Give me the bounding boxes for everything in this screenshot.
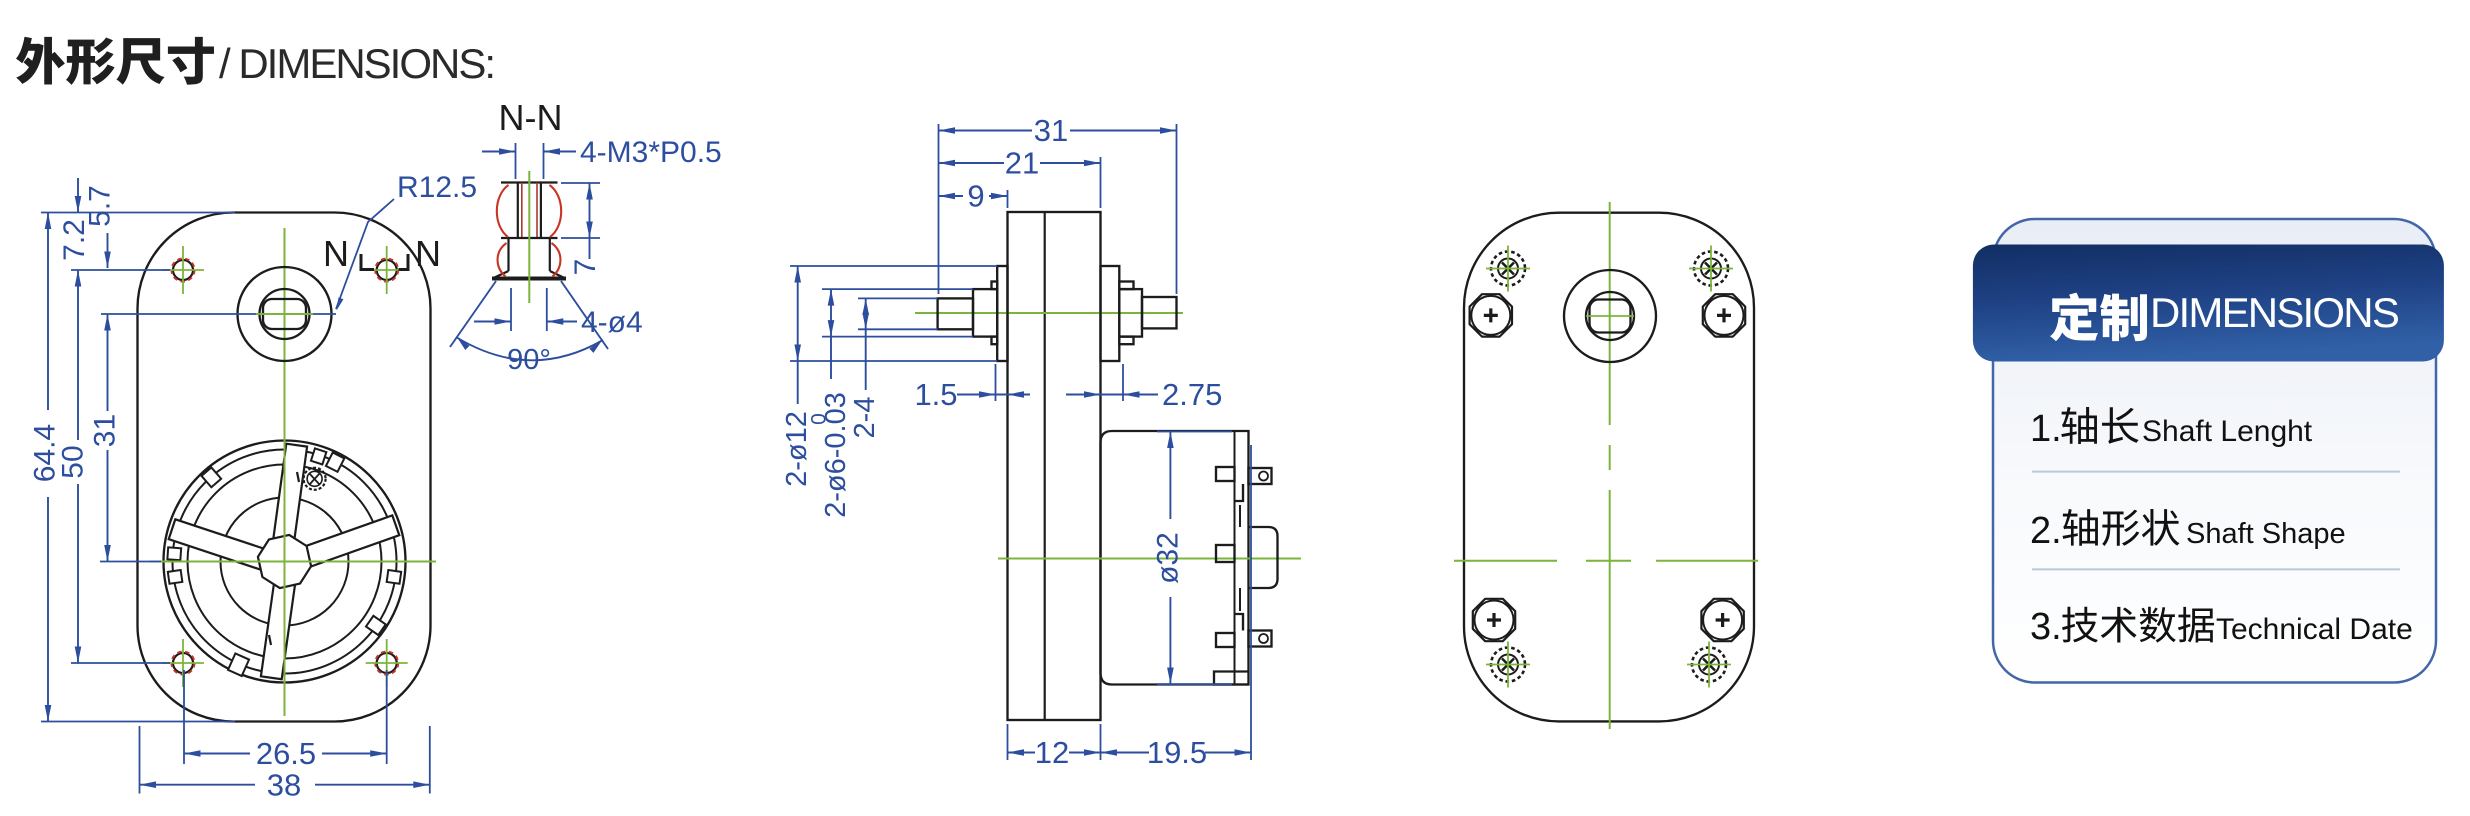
svg-text:Shaft Lenght: Shaft Lenght [2142,415,2313,448]
dim 19.5 [1101,752,1150,754]
side left shaft mid [973,289,997,337]
NN lower body walls [507,238,509,271]
front gear wheel [164,441,406,683]
front screw hole (386.7,663) [377,653,397,673]
side terminal upper blade [1249,468,1272,484]
side motor outline [1101,431,1249,685]
rear nut bottom-left [1473,599,1515,641]
NN dim 4-o4 [474,321,511,323]
front screw hole (386.7,270) [377,260,397,280]
gear center green cross [284,430,286,700]
dim 64.4 ext lines [41,212,235,214]
NN thread minor red [521,183,523,239]
svg-text:12: 12 [1035,735,1069,770]
NN cone lines [450,281,496,347]
NN dim 7 ext [561,182,600,184]
side shaft centerline [915,312,1183,314]
dim 64.4 [47,213,49,411]
dim 9 [939,195,964,197]
title CJK 外形尺寸 [16,37,214,85]
side left shaft end [938,298,973,329]
dim 50 ext lines [71,269,170,271]
svg-text:N: N [415,233,441,274]
side right bearing [1101,266,1120,361]
side gearbox body [1008,212,1101,720]
svg-text:2-4: 2-4 [849,397,881,439]
rear nut top-right [1703,294,1745,336]
front screw hole (183,270) [173,260,193,280]
dim 2-4 ext [858,297,938,299]
svg-text:9: 9 [967,179,984,214]
side motor can line [1234,431,1236,685]
svg-text:26.5: 26.5 [256,736,316,771]
dim 5.7 [107,233,109,268]
front boss green h [256,313,313,315]
svg-text:Technical Date: Technical Date [2216,613,2413,646]
svg-text:7: 7 [569,259,602,276]
dim 26.5 [184,753,250,755]
svg-text:3.: 3. [2030,606,2062,648]
svg-text:31: 31 [89,414,122,447]
dim 2-o6 ext [822,288,973,290]
side motor centerline [998,558,1301,560]
svg-text:19.5: 19.5 [1147,735,1207,770]
svg-text:/ DIMENSIONS:: / DIMENSIONS: [219,40,494,87]
svg-text:4-M3*P0.5: 4-M3*P0.5 [580,136,722,169]
NN dim 7 [589,183,591,259]
front screw hole (183,663) [173,653,193,673]
rear boss outer [1564,270,1656,362]
dim 1.5 ext [995,364,997,401]
dim 26.5 ext lines [183,670,185,764]
card separator 1 [2032,471,2400,473]
NN dim 4-o4 ext [510,288,512,331]
card header CJK 定制 [2050,293,2147,342]
dim 7.2 [77,178,79,213]
dim 38 ext lines [139,726,141,794]
svg-text:1.5: 1.5 [914,377,957,412]
rear boss green h [1586,315,1634,317]
NN 90 arc [456,337,603,360]
side bump tab [1216,545,1235,562]
front centerline vertical [284,228,286,716]
svg-text:0: 0 [808,413,831,425]
dim o32 ext [1157,431,1232,433]
svg-text:2-ø6-0.03: 2-ø6-0.03 [820,392,852,518]
svg-text:90°: 90° [507,344,551,376]
rear boss D-hole [1590,300,1631,333]
side terminal upper tab [1216,467,1235,481]
svg-text:R12.5: R12.5 [397,171,477,204]
dim 2-4 [865,298,867,390]
dim 21 ext [1100,157,1102,208]
dim 2.75 [1066,394,1101,396]
dim 21 [939,162,1005,164]
side terminal upper step [1235,484,1244,501]
NN centerline green [528,171,530,303]
side terminal lower step [1235,614,1244,631]
leader R12.5 [336,199,394,309]
svg-text:31: 31 [1034,113,1068,148]
NN step line [501,237,558,239]
svg-text:N-N: N-N [499,97,563,138]
dim 2-o12 [797,266,799,404]
card header band [1973,245,2444,362]
NN part top face [501,181,558,183]
svg-text:2.75: 2.75 [1162,377,1222,412]
side gearbox parting line [1044,212,1046,720]
front shaft boss outer [238,267,332,361]
svg-text:4-ø4: 4-ø4 [581,306,643,339]
NN dim 4-M3*P0.5 ext [515,143,517,179]
dim 2.75 ext [1122,364,1124,401]
front view body [138,213,431,722]
rear screw top-left [1491,252,1525,286]
NN bottom face [492,277,566,281]
svg-text:1.: 1. [2030,408,2062,450]
dim 38 [140,784,256,786]
side terminal lower tab [1216,633,1235,647]
svg-text:DIMENSIONS: DIMENSIONS [2150,289,2399,336]
dim 19.5 ext [1250,445,1252,760]
side terminal lower blade [1249,631,1272,647]
svg-text:2.: 2. [2030,510,2062,552]
rear nut bottom-right [1701,599,1743,641]
section cut bracket [361,254,374,270]
rear body [1464,213,1754,722]
dim 31 ext line [100,561,161,563]
card separator 2 [2032,568,2400,570]
dim 2-o12 ext [790,265,997,267]
dim 31 side [939,130,1033,132]
NN red break lines [497,185,509,237]
side bearing bump [1249,527,1278,588]
side left bearing [997,266,1007,361]
NN chamfer [495,271,509,278]
side right shaft mid [1119,289,1142,337]
side right retaining tabs [1119,282,1133,290]
svg-text:N: N [323,233,349,274]
front boss blue ext 31 [101,313,336,315]
dim 12 [1008,752,1036,754]
rear boss inner [1586,292,1634,340]
side bottom bracket [1214,672,1249,685]
rear screw bottom-right [1692,648,1726,682]
rear centerline vertical [1609,202,1611,425]
svg-text:21: 21 [1005,146,1039,181]
dim 9 ext [1007,190,1009,208]
svg-text:50: 50 [57,445,90,478]
dim 31 [107,314,109,411]
dim 50 [77,270,79,440]
dim 31 ext [938,124,940,294]
NN thread hole walls [517,183,519,239]
svg-text:38: 38 [267,768,301,803]
rear screw top-right [1694,252,1728,286]
dim o32 [1169,432,1171,520]
rear screw bottom-left [1491,648,1525,682]
NN dim 4-M3*P0.5 [482,151,516,153]
side left shaft steps [992,282,998,290]
side plate verticals [1239,505,1241,527]
dim 12 ext [1007,724,1009,760]
svg-text:ø32: ø32 [1152,532,1185,584]
dim 2-o6 [830,289,832,379]
rear nut top-left [1470,294,1512,336]
side right shaft end [1142,297,1177,328]
front centerline horizontal [150,561,436,563]
svg-text:Shaft Shape: Shaft Shape [2186,518,2346,550]
front shaft boss inner [260,289,310,339]
svg-text:5.7: 5.7 [84,185,117,227]
rear centerline horizontal [1454,560,1557,562]
front shaft D-hole [263,299,306,329]
